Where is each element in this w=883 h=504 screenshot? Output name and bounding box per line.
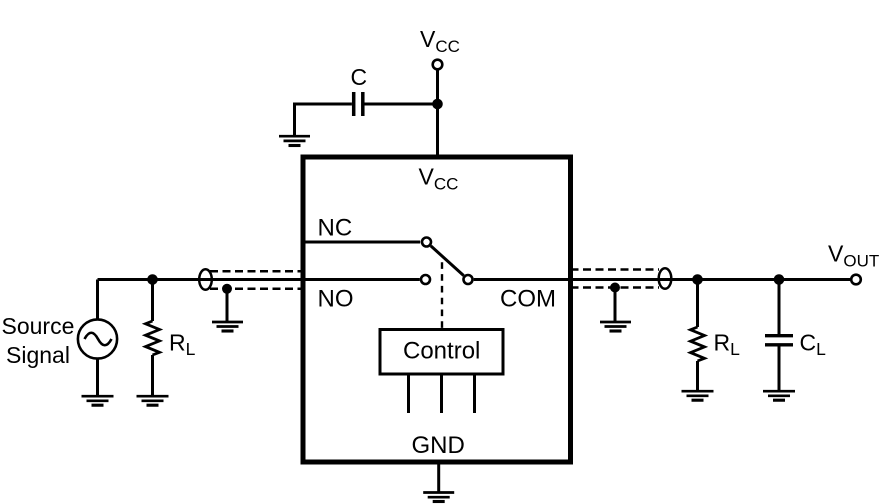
ground (CL) bbox=[763, 391, 795, 400]
ground (RL right) bbox=[682, 391, 714, 400]
node VCC junction bbox=[432, 99, 443, 110]
svg-text:COM: COM bbox=[500, 286, 556, 313]
terminal VCC (open circle) bbox=[433, 60, 443, 70]
resistor RL (right) bbox=[691, 280, 705, 392]
wire GND pin to ground bbox=[437, 462, 440, 492]
svg-text:Source: Source bbox=[2, 313, 75, 339]
ground (IC GND) bbox=[423, 493, 454, 502]
svg-text:C: C bbox=[351, 64, 368, 90]
svg-text:NO: NO bbox=[318, 286, 354, 313]
ground (source) bbox=[82, 396, 114, 405]
svg-text:GND: GND bbox=[412, 432, 465, 459]
resistor RL (left) bbox=[146, 280, 160, 397]
node right shield ground tap bbox=[610, 283, 620, 293]
control block bbox=[380, 330, 503, 375]
ground (left shield) bbox=[212, 322, 243, 331]
IC box U1 bbox=[303, 157, 571, 462]
pin COM contact (open circle) bbox=[464, 275, 473, 284]
wire left shield to ground bbox=[226, 289, 229, 322]
wire capacitor to ground corner bbox=[295, 104, 352, 136]
label Source Signal bbox=[2, 313, 75, 368]
capacitor C bbox=[354, 92, 363, 116]
svg-text:NC: NC bbox=[318, 215, 353, 242]
wire junction to capacitor C bbox=[365, 103, 438, 106]
node CL junction bbox=[774, 274, 785, 285]
wire right shield to ground bbox=[614, 288, 617, 322]
source V1 (AC signal source) bbox=[78, 319, 117, 358]
node source/RL junction bbox=[147, 274, 158, 285]
node left shield ground tap bbox=[222, 284, 232, 294]
terminal VOUT (open circle) bbox=[851, 275, 861, 285]
wire COM to VOUT (right rail) bbox=[474, 278, 851, 281]
pin control 2 bbox=[440, 376, 443, 414]
pin NO contact (open circle) bbox=[421, 275, 430, 284]
coax shield (left cable) bbox=[199, 269, 303, 290]
capacitor CL bbox=[765, 280, 793, 392]
node RL right junction bbox=[692, 274, 703, 285]
coax shield (right cable) bbox=[571, 268, 672, 289]
wire VCC terminal to box top bbox=[436, 70, 439, 157]
wire source to ground bbox=[96, 359, 99, 396]
wire control dashed link bbox=[441, 262, 443, 329]
ground (right shield) bbox=[600, 322, 631, 331]
svg-text:Signal: Signal bbox=[6, 342, 70, 368]
pin control 3 bbox=[473, 376, 476, 414]
switch arm (NC to COM) bbox=[431, 246, 464, 276]
ground (RL left) bbox=[137, 396, 169, 405]
pin control 1 bbox=[407, 376, 410, 414]
wire source/NO line (left rail) bbox=[98, 278, 420, 281]
wire NC bbox=[303, 241, 420, 244]
pin NC contact (open circle) bbox=[422, 238, 431, 247]
wire source drop bbox=[96, 280, 99, 320]
svg-text:Control: Control bbox=[403, 338, 480, 365]
ground (bypass cap) bbox=[279, 136, 310, 145]
